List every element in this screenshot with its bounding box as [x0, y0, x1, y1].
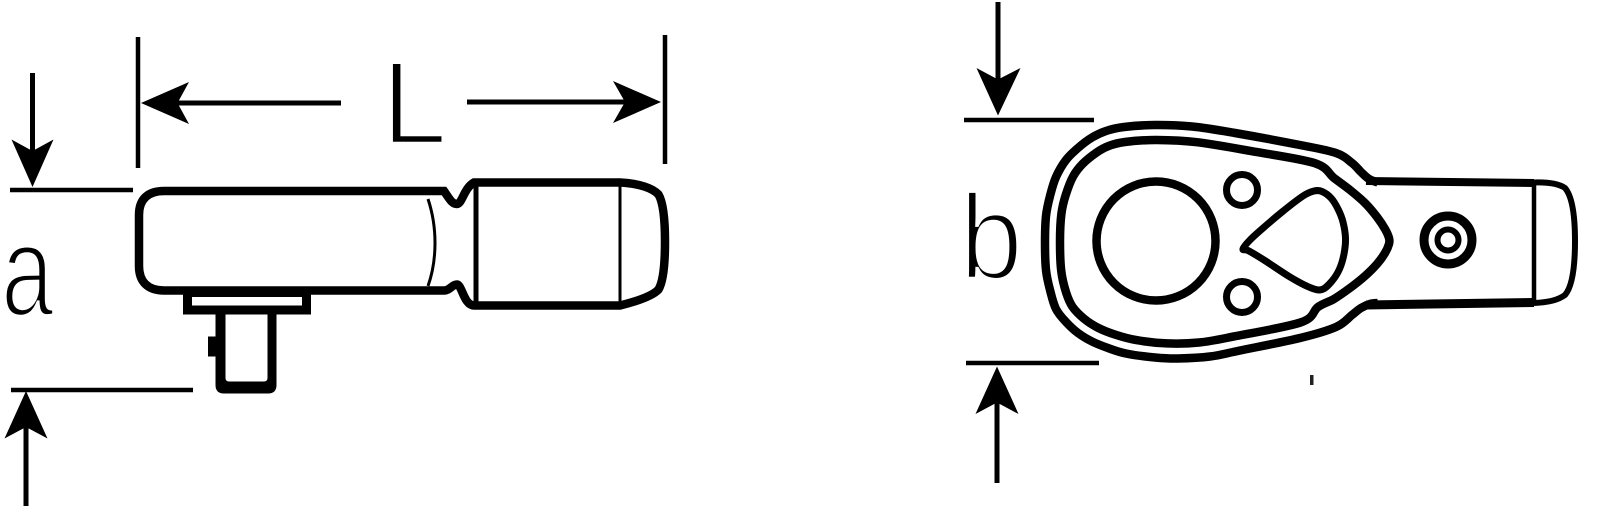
wrench side view: end cap left edge line: [619, 181, 622, 308]
label a: [1, 199, 54, 344]
wrench side view: square drive shank: [216, 310, 277, 394]
head top view: tang end cap: [1534, 182, 1575, 303]
head top view: spring pin outer circle: [1424, 216, 1472, 264]
dimension L: left extension line: [136, 37, 141, 168]
head top view: tang bottom edge: [1366, 303, 1534, 306]
wrench side view: detent pin nub: [208, 337, 217, 357]
dimension b: bottom reference line: [966, 361, 1099, 366]
dimension a: down arrow shaft: [30, 73, 35, 158]
dimension a: up arrow shaft: [24, 420, 29, 506]
wrench side view: square drive flange: [183, 288, 311, 315]
head top view: tang top edge: [1366, 181, 1534, 183]
head top view: outer contour: [1045, 125, 1378, 359]
dimension L: right arrowhead: [613, 81, 661, 123]
svg-text:L: L: [382, 38, 448, 170]
wrench side view: body right-end arc: [428, 199, 435, 286]
label L: [382, 38, 448, 170]
dimension L: right extension line: [663, 35, 668, 164]
head top view: small hole top: [1227, 175, 1258, 206]
dimension L: right arrow shaft: [467, 100, 655, 105]
head top view: small hole bottom: [1227, 282, 1258, 313]
wrench side view: grip left edge line: [474, 183, 479, 305]
dimension a: top reference line: [10, 188, 133, 193]
dimension b: top reference line: [964, 118, 1094, 123]
dimension L: left arrowhead: [141, 82, 189, 124]
dimension a: bottom reference line: [11, 388, 193, 393]
head top view: inner contour: [1060, 140, 1390, 344]
svg-text:a: a: [1, 199, 54, 344]
dimension L: left arrow shaft: [150, 101, 341, 106]
dimension b: up arrowhead: [976, 367, 1019, 415]
wrench side view: body and handle silhouette: [139, 183, 665, 306]
head top view: spring pin inner circle: [1438, 230, 1459, 251]
head top view: drive bore circle: [1097, 182, 1216, 301]
stray tick mark: [1310, 375, 1314, 385]
dimension a: up arrowhead: [5, 391, 48, 439]
dimension b: down arrow shaft: [996, 2, 1001, 86]
dimension a: down arrowhead: [12, 140, 54, 188]
head top view: pawl cavity (pear shape): [1243, 190, 1346, 289]
dimension b: up arrow shaft: [995, 396, 1000, 483]
label b: [960, 169, 1023, 304]
dimension b: down arrowhead: [977, 68, 1021, 116]
head top view: tang end vertical line: [1532, 181, 1537, 305]
svg-text:b: b: [960, 169, 1023, 304]
